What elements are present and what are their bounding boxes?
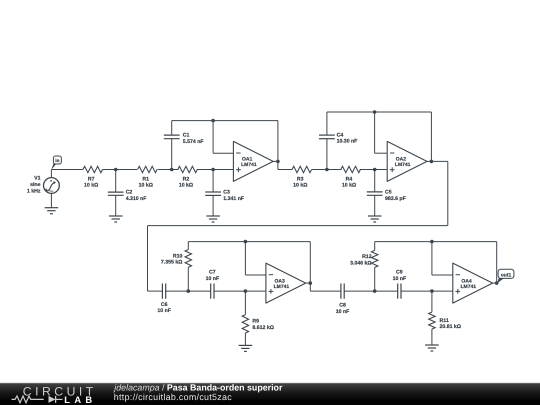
wire OA4 output lead [493, 282, 497, 284]
node junction C3 [211, 168, 215, 172]
capacitor C9 10 nF [393, 269, 407, 298]
svg-text:R12: R12 [362, 254, 372, 260]
svg-text:C7: C7 [209, 269, 216, 275]
wire OA3 feedback right [309, 242, 311, 292]
wire R4 to node C5 [360, 169, 387, 171]
svg-text:10 kΩ: 10 kΩ [84, 183, 98, 189]
wire OA1 inverting input [213, 121, 233, 154]
wire OA1 feedback right [277, 121, 279, 170]
node junction R12 [373, 289, 377, 293]
wire OA2 output lead [427, 160, 431, 162]
wire OA3 inverting input [245, 242, 266, 275]
capacitor C3 1.341 nF [205, 170, 244, 216]
wire OA4 inverting input [432, 242, 453, 275]
node junction OA4 output [495, 281, 499, 285]
ground (C3) [206, 216, 220, 222]
resistor R12 3.046 kOhm [350, 242, 378, 292]
wire R1 to node C1 [158, 169, 179, 171]
wire C8 to node R12 [344, 290, 398, 292]
wire OA4 feedback top [375, 241, 497, 243]
node junction OA2 output [430, 160, 434, 164]
footer title text [113, 382, 283, 392]
svg-text:sine: sine [30, 182, 40, 188]
svg-text:10 nF: 10 nF [336, 309, 350, 315]
wire OA1 feedback top [172, 120, 278, 122]
svg-text:1.341 nF: 1.341 nF [223, 196, 244, 202]
wire R3 to node C4 [312, 169, 342, 171]
svg-text:C6: C6 [161, 302, 168, 308]
svg-text:R3: R3 [297, 176, 304, 182]
wire R7 to node C2 [103, 169, 138, 171]
voltage source V1 sine 1 kHz [27, 170, 59, 208]
wire V1 to R7 [51, 169, 83, 171]
node junction R10 [187, 289, 191, 293]
capacitor C2 4.310 nF [108, 170, 147, 216]
wire OA2 feedback top [327, 111, 432, 113]
svg-text:in: in [55, 158, 59, 163]
node junction R11 [430, 289, 434, 293]
svg-text:V1: V1 [34, 176, 40, 182]
svg-text:R1: R1 [142, 176, 149, 182]
resistor R11 20.81 kOhm [429, 291, 461, 345]
svg-text:C5: C5 [385, 190, 392, 196]
capacitor C8 10 nF [336, 284, 350, 315]
op-amp OA4 LM741 [453, 263, 493, 303]
svg-text:10 nF: 10 nF [157, 308, 171, 314]
op-amp OA3 LM741 [266, 263, 306, 303]
svg-text:3.046 kΩ: 3.046 kΩ [350, 260, 371, 266]
resistor R10 7.355 kOhm [161, 242, 192, 292]
capacitor C7 10 nF [206, 269, 220, 298]
wire OA3 output to C8 [310, 290, 341, 292]
CircuitLab logo schematic glyph [12, 396, 63, 403]
svg-text:LM741: LM741 [274, 284, 290, 290]
svg-text:4.310 nF: 4.310 nF [126, 196, 147, 202]
resistor R2 [178, 166, 197, 188]
svg-text:10 nF: 10 nF [206, 276, 220, 282]
resistor R9 8.612 kOhm [242, 291, 274, 345]
node junction OA3 output [309, 281, 313, 285]
wire OA2 feedback right [430, 112, 432, 161]
svg-text:C8: C8 [339, 303, 346, 309]
svg-text:R4: R4 [346, 176, 353, 182]
wire OA4 feedback right [496, 242, 498, 284]
svg-text:R11: R11 [440, 318, 449, 324]
CircuitLab logo text CIRCUIT [23, 385, 97, 399]
footer url text [114, 392, 232, 402]
svg-text:LAB: LAB [64, 394, 96, 405]
capacitor C6 10 nF [157, 284, 171, 315]
svg-text:out1: out1 [501, 273, 512, 279]
capacitor C5 983.6 pF [367, 170, 406, 216]
svg-text:C3: C3 [223, 190, 230, 196]
svg-text:LM741: LM741 [395, 162, 411, 168]
node junction OA2 inverting branch [373, 110, 377, 114]
svg-text:20.81 kΩ: 20.81 kΩ [440, 324, 461, 330]
node junction OA4 inverting branch [430, 240, 434, 244]
ground (V1) [45, 208, 59, 214]
svg-text:R10: R10 [173, 253, 183, 259]
svg-text:LM741: LM741 [241, 162, 257, 168]
wire OA2 inverting input [375, 112, 388, 153]
svg-text:http://circuitlab.com/cut5zac: http://circuitlab.com/cut5zac [114, 392, 232, 402]
wire OA2 output to row 2 [148, 161, 448, 291]
CircuitLab logo text LAB [64, 394, 96, 405]
op-amp OA2 LM741 [387, 141, 427, 181]
svg-text:C2: C2 [126, 190, 133, 196]
op-amp OA1 LM741 [233, 141, 273, 181]
svg-text:R7: R7 [88, 176, 95, 182]
ground (R9) [239, 345, 253, 351]
svg-text:10 kΩ: 10 kΩ [293, 183, 307, 189]
node junction C5 [373, 168, 377, 172]
node junction R9 [244, 289, 248, 293]
svg-text:C4: C4 [337, 132, 344, 138]
svg-text:983.6 pF: 983.6 pF [385, 196, 406, 202]
svg-text:C1: C1 [183, 133, 190, 139]
node flag out1 [497, 269, 514, 283]
svg-text:1 kHz: 1 kHz [27, 188, 41, 194]
svg-text:10 nF: 10 nF [393, 276, 407, 282]
node junction C1 [170, 168, 174, 172]
node junction C4 [325, 168, 329, 172]
svg-text:LM741: LM741 [461, 284, 477, 290]
wire C6 to node R10 [166, 290, 211, 292]
wire OA3 feedback top [188, 241, 310, 243]
wire C7 to node R9 [214, 290, 266, 292]
node junction OA1 inverting branch [211, 119, 215, 123]
resistor R1 [138, 166, 157, 188]
svg-text:R9: R9 [252, 319, 259, 325]
resistor R7 [83, 166, 102, 188]
svg-text:10.30 nF: 10.30 nF [337, 139, 358, 145]
wire OA1 output lead [273, 160, 278, 162]
wire OA1 output to R3 [278, 169, 292, 171]
wire OA3 output lead [306, 282, 311, 284]
ground (C5) [368, 216, 382, 222]
svg-text:R2: R2 [183, 176, 190, 182]
node flag in [51, 156, 61, 170]
svg-text:10 kΩ: 10 kΩ [342, 183, 356, 189]
svg-text:10 kΩ: 10 kΩ [139, 183, 153, 189]
node junction C2 [114, 168, 118, 172]
wire to C6 [148, 290, 163, 292]
svg-text:C9: C9 [396, 269, 403, 275]
wire C9 to node R11 [401, 290, 453, 292]
capacitor C1 5.574 nF [164, 121, 204, 170]
resistor R3 [292, 166, 311, 188]
svg-text:8.612 kΩ: 8.612 kΩ [252, 325, 273, 331]
svg-text:5.574 nF: 5.574 nF [183, 139, 204, 145]
svg-text:7.355 kΩ: 7.355 kΩ [161, 260, 182, 266]
footer bar [0, 383, 540, 405]
svg-text:10 kΩ: 10 kΩ [179, 183, 193, 189]
ground (R11) [425, 345, 439, 351]
capacitor C4 10.30 nF [319, 112, 357, 170]
resistor R4 [341, 166, 360, 188]
node junction OA3 inverting branch [244, 240, 248, 244]
node junction OA1 output [276, 160, 280, 164]
ground (C2) [109, 216, 123, 222]
wire R2 to node C3 [197, 169, 233, 171]
